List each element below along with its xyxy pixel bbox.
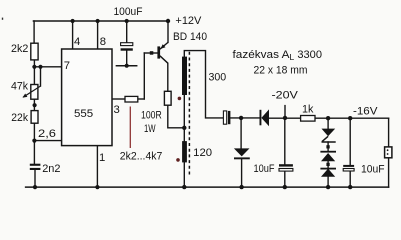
node shunt diode ground: [239, 185, 243, 189]
wire 1k to -16V rail: [315, 117, 389, 119]
capacitor coupling plate right: [228, 111, 231, 124]
wire pot to 22k lead: [33, 99, 35, 110]
wire -20V stub: [284, 106, 286, 118]
diode D2 cathode bar: [260, 110, 262, 126]
svg-text:1k: 1k: [302, 103, 314, 115]
diode D4 triangle: [321, 169, 335, 177]
resistor right edge load dot b: [387, 153, 389, 155]
wire 100uF top lead: [126, 21, 128, 43]
svg-text:3: 3: [114, 104, 120, 116]
node pin7 / divider: [32, 65, 36, 69]
svg-text:-20V: -20V: [272, 90, 299, 102]
node pin1 ground: [95, 185, 99, 189]
svg-text:10uF: 10uF: [254, 163, 275, 175]
capacitor 10uF right plate bottom: [343, 169, 354, 172]
svg-text:120: 120: [193, 147, 212, 159]
svg-text:300: 300: [209, 71, 227, 83]
resistor 100R: [164, 91, 171, 105]
wire base resistor to corner: [138, 98, 145, 100]
node zener chain top: [326, 116, 330, 120]
wire winding2 bottom lead: [183, 162, 185, 187]
speck top left: [2, 18, 3, 20]
wire 10uF mid bottom lead: [284, 171, 286, 187]
wire winding link: [183, 95, 185, 141]
resistor base 2k2..4k7: [125, 96, 138, 102]
wire zener chain top lead: [327, 118, 329, 128]
node 10uF right ground: [348, 185, 352, 189]
svg-text:8: 8: [100, 36, 106, 48]
wire shunt diode top lead: [240, 118, 242, 148]
svg-text:10uF: 10uF: [361, 164, 385, 176]
node zener chain blob 1: [326, 145, 329, 148]
wire 10uF mid top lead: [284, 118, 286, 164]
node base wire blob: [150, 51, 154, 55]
node top rail / 100uF: [125, 19, 129, 23]
svg-text:BD 140: BD 140: [173, 31, 207, 43]
svg-text:100uF: 100uF: [114, 6, 143, 18]
resistor 1k: [301, 116, 315, 122]
potentiometer 47k wiper diagonal: [23, 86, 41, 97]
svg-text:2k2: 2k2: [11, 43, 28, 55]
svg-text:47k: 47k: [11, 80, 28, 92]
diode D3 triangle: [321, 153, 335, 161]
ground bar under 100uF: [116, 65, 136, 67]
wire pot wiper vertical: [40, 67, 42, 86]
diode D3 cathode bar: [320, 151, 336, 153]
wire 10uF right bottom lead: [349, 171, 351, 187]
capacitor 10uF mid plate bottom: [279, 169, 293, 172]
node +12V rail end: [166, 19, 170, 23]
wire 10uF right top lead: [349, 118, 351, 165]
wire top supply rail: [33, 20, 168, 22]
op-amp U1 555 timer box: [62, 49, 112, 146]
wire D4 bottom lead: [327, 177, 329, 187]
wire right edge drop: [388, 118, 390, 147]
node top rail / pin 8: [96, 19, 100, 23]
svg-text:22k: 22k: [11, 112, 28, 124]
node zener chain ground: [326, 185, 330, 189]
diode D1 shunt triangle: [234, 148, 250, 156]
node pin7 / wiper: [38, 65, 42, 69]
transistor Q1 emitter arrow: [160, 44, 165, 49]
capacitor 100uF plate bottom: [121, 48, 133, 50]
wire pin 2,6: [34, 140, 61, 142]
wire pin 8 lead: [97, 21, 99, 49]
svg-text:555: 555: [74, 108, 93, 120]
wire 22k bottom lead: [33, 123, 35, 140]
wire zener to D3 lead: [327, 142, 329, 151]
diode D1 cathode bar: [234, 157, 250, 159]
wire pin 1 lead: [96, 146, 98, 188]
annotation red line: [129, 107, 131, 149]
svg-text:2,6: 2,6: [38, 128, 56, 140]
wire diode D2 to -20V node: [269, 117, 301, 119]
transformer winding 120 bar: [182, 141, 187, 162]
node primary tap junction: [182, 126, 186, 130]
node 2n2 ground: [33, 185, 37, 189]
wire 100uF bottom lead: [126, 51, 128, 66]
node -20V junction: [283, 116, 287, 120]
svg-text:7: 7: [64, 60, 70, 72]
node top rail / pin 4: [71, 19, 75, 23]
node pin 2,6 junction: [32, 139, 36, 143]
node A cap-diode junction: [239, 116, 243, 120]
zener Z1 triangle: [322, 129, 336, 137]
zener Z1 bent bar: [322, 136, 336, 142]
node 10uF mid ground: [283, 185, 287, 189]
capacitor 10uF mid plate top: [279, 164, 293, 166]
diode D4 cathode bar: [320, 168, 336, 170]
svg-text:+12V: +12V: [175, 15, 201, 27]
wire 2k2 bottom lead: [33, 60, 35, 67]
wire coupling cap to junction A: [230, 117, 259, 119]
resistor right edge load dot a: [387, 149, 389, 151]
svg-text:2k2...4k7: 2k2...4k7: [120, 151, 163, 163]
capacitor 100uF plate top: [121, 43, 133, 46]
node ground bar center: [125, 64, 129, 68]
capacitor coupling plate left: [223, 111, 226, 124]
wire base horizontal to transistor: [144, 52, 157, 54]
wire 100R to primary junction: [168, 105, 185, 128]
wire collector lead: [167, 63, 169, 91]
transistor Q1 emitter diagonal: [160, 42, 168, 49]
transistor Q1 collector diagonal: [160, 56, 168, 64]
wire shunt diode bottom lead: [241, 159, 243, 187]
resistor 22k: [31, 111, 38, 124]
wire winding1 top lead: [184, 51, 223, 118]
wire D3 to D4 lead: [327, 161, 329, 168]
wire pin 7: [34, 66, 61, 68]
svg-text:2n2: 2n2: [42, 163, 60, 175]
resistor right edge load: [385, 147, 392, 158]
wire bottom ground rail: [26, 186, 389, 188]
resistor 2k2: [31, 43, 38, 60]
wire pot top lead: [33, 67, 35, 85]
wire emitter to +12V: [167, 21, 169, 42]
node winding2 ground: [182, 185, 186, 189]
potentiometer 47k body: [31, 85, 38, 100]
wire right edge drop lower: [388, 158, 390, 187]
node zener chain blob 2: [326, 163, 329, 166]
node -16V / 10uF: [348, 116, 352, 120]
wire base vertical riser: [143, 53, 145, 99]
capacitor 10uF right plate top: [343, 165, 354, 167]
transformer core dashed line: [188, 52, 190, 175]
wire 2n2 bottom lead: [34, 170, 36, 187]
svg-text:-16V: -16V: [353, 105, 378, 117]
wire 22k to 2n2 lead: [33, 141, 35, 164]
svg-text:fazékvas AL 3300: fazékvas AL 3300: [233, 49, 322, 62]
transformer polarity dot 2: [176, 158, 180, 162]
diode D2 triangle: [261, 109, 269, 126]
transformer polarity dot 1: [178, 97, 182, 101]
capacitor 2n2 plate bottom: [30, 168, 41, 170]
svg-text:22 x 18 mm: 22 x 18 mm: [254, 65, 308, 77]
wire pin 3: [112, 98, 125, 100]
node pot bottom: [33, 103, 37, 107]
transformer winding 300 bar: [182, 57, 187, 95]
transistor Q1 base bar: [157, 46, 160, 58]
capacitor 2n2 plate top: [30, 164, 41, 166]
svg-text:4: 4: [74, 36, 80, 48]
potentiometer 47k arrowhead: [23, 94, 28, 98]
wire pin 4 lead: [72, 21, 74, 49]
svg-text:1: 1: [99, 152, 105, 164]
svg-text:1W: 1W: [144, 123, 156, 135]
svg-text:100R: 100R: [141, 109, 162, 121]
wire 2k2 top lead: [33, 21, 35, 43]
